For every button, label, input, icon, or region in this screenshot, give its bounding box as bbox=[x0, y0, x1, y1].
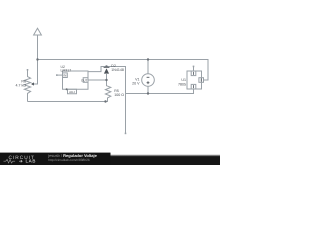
svg-text:OUT: OUT bbox=[81, 78, 88, 82]
svg-text:ADJ: ADJ bbox=[69, 90, 75, 94]
svg-text:7805: 7805 bbox=[178, 82, 186, 86]
svg-text:100 Ω: 100 Ω bbox=[114, 93, 124, 97]
svg-text:LAB: LAB bbox=[26, 159, 36, 164]
svg-text:20 V: 20 V bbox=[132, 82, 140, 86]
svg-text:4.7 kΩ: 4.7 kΩ bbox=[16, 84, 27, 88]
svg-text:LM317: LM317 bbox=[61, 69, 72, 73]
svg-text:1N4148: 1N4148 bbox=[111, 68, 124, 72]
svg-text:http://circuitlab.com/c/838h26: http://circuitlab.com/c/838h26 bbox=[48, 158, 90, 162]
svg-text:IN: IN bbox=[63, 74, 66, 78]
svg-text:jesusb / Regulador Voltaje: jesusb / Regulador Voltaje bbox=[47, 153, 97, 158]
